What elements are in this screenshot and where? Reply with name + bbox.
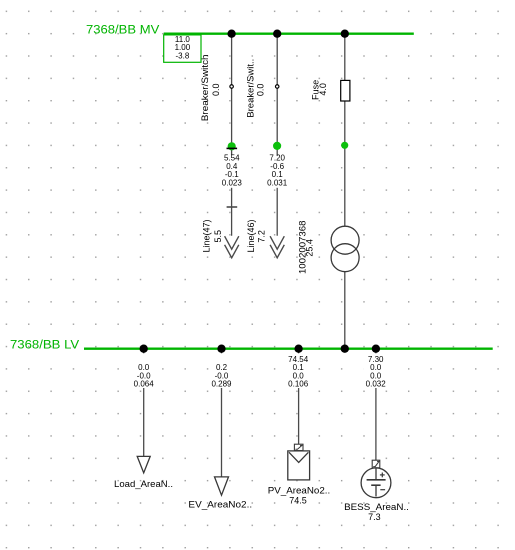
svg-text:7368/BB MV: 7368/BB MV [86, 22, 160, 36]
node LV bus junction EV [217, 345, 225, 353]
svg-text:0.289: 0.289 [211, 380, 232, 389]
label Line(47) 5.5 [202, 219, 223, 252]
node LV bus junction PV [294, 345, 302, 353]
node terminal marker feeder1 (green dome with bar) [227, 142, 238, 150]
line-end chevron arrows feeder2 [270, 236, 284, 258]
label 1002007368 25.4 [298, 221, 315, 274]
label EV_AreaNo2.. [188, 500, 252, 510]
svg-text:0.0: 0.0 [256, 84, 266, 97]
svg-text:0.0: 0.0 [211, 84, 221, 97]
bus result box 11.0 1.00 -3.8 [164, 35, 201, 62]
wire BESS feeder [375, 349, 377, 468]
svg-text:EV_AreaNo2..: EV_AreaNo2.. [188, 500, 252, 510]
svg-text:Line(46): Line(46) [246, 219, 256, 252]
breaker Breaker/Swit.. (closed) on feeder2 [275, 85, 279, 89]
svg-text:25.4: 25.4 [305, 239, 315, 257]
result box BESS 7.30 0.0 0.0 0.032 [363, 353, 388, 388]
svg-text:0.106: 0.106 [288, 380, 309, 389]
load Load_AreaN.. arrow symbol [137, 456, 150, 473]
label Breaker/Swit.. 0.0 [246, 59, 266, 118]
node MV bus junction feeder3 [341, 30, 349, 38]
svg-text:Breaker/Swit..: Breaker/Swit.. [246, 59, 256, 118]
svg-text:74.5: 74.5 [289, 496, 307, 506]
svg-text:Breaker/Switch: Breaker/Switch [200, 54, 210, 121]
wire PV feeder [298, 349, 300, 451]
svg-text:7.3: 7.3 [368, 512, 381, 522]
wire feeder2 Breaker/Swit..-Line(46) [276, 34, 278, 236]
busbar label 7368/BB LV [10, 337, 80, 351]
line-end chevron arrows feeder1 [225, 236, 239, 258]
node MV bus junction feeder1 [227, 30, 235, 38]
PV system PV_AreaNo2.. symbol [288, 444, 310, 480]
svg-text:0.023: 0.023 [222, 178, 243, 187]
busbar 7368/BB LV [84, 348, 493, 350]
svg-text:-3.8: -3.8 [176, 52, 190, 61]
load EV_AreaNo2.. arrow symbol [215, 477, 229, 495]
node terminal marker feeder2 (green dot) [273, 142, 281, 150]
svg-text:4.0: 4.0 [318, 83, 328, 96]
wire feeder1 Breaker/Switch-Line(47) [231, 34, 233, 236]
svg-text:PV_AreaNo2..: PV_AreaNo2.. [268, 486, 331, 496]
busbar 7368/BB MV [164, 33, 414, 35]
node MV bus junction feeder2 [273, 30, 281, 38]
svg-text:0.032: 0.032 [366, 380, 387, 389]
wire feeder3 Fuse-transformer to LV bus [344, 34, 346, 349]
svg-text:Line(47): Line(47) [202, 219, 212, 252]
wire load feeder [143, 349, 145, 457]
BESS battery BESS_AreaN.. symbol [361, 460, 391, 497]
node LV bus junction BESS [372, 345, 380, 353]
label Fuse 4.0 [311, 80, 328, 100]
result box feeder1 5.54 0.4 -0.1 0.023 [219, 154, 244, 188]
breaker Breaker/Switch (closed) on feeder1 [230, 85, 234, 89]
label Load_AreaN.. [114, 479, 173, 489]
node LV bus junction load [140, 345, 148, 353]
result box load 0.0 -0.0 0.064 [131, 353, 156, 388]
svg-text:0.064: 0.064 [134, 380, 155, 389]
svg-text:5.5: 5.5 [213, 230, 223, 243]
svg-text:Load_AreaN..: Load_AreaN.. [114, 479, 173, 489]
label BESS_AreaN.. 7.3 [344, 502, 409, 522]
node terminal marker feeder3 (green dot) [341, 142, 348, 149]
line tick on Line(47) [227, 206, 238, 208]
transformer 1002007368 [331, 226, 359, 272]
svg-text:7368/BB LV: 7368/BB LV [10, 337, 80, 351]
busbar label 7368/BB MV [86, 22, 160, 36]
label Line(46) 7.2 [246, 219, 266, 252]
svg-text:7.2: 7.2 [256, 230, 266, 243]
label Breaker/Switch 0.0 [200, 54, 221, 121]
node LV bus junction transformer [341, 345, 349, 353]
fuse Fuse on feeder3 [341, 80, 350, 101]
svg-text:0.031: 0.031 [267, 178, 288, 187]
result box PV 74.54 0.1 0.0 0.106 [286, 353, 311, 388]
label PV_AreaNo2.. 74.5 [268, 486, 331, 506]
result box feeder2 7.20 -0.6 0.1 0.031 [264, 154, 289, 188]
result box EV 0.2 -0.0 0.289 [209, 353, 234, 388]
wire EV feeder [221, 349, 223, 477]
svg-text:BESS_AreaN..: BESS_AreaN.. [344, 502, 409, 512]
